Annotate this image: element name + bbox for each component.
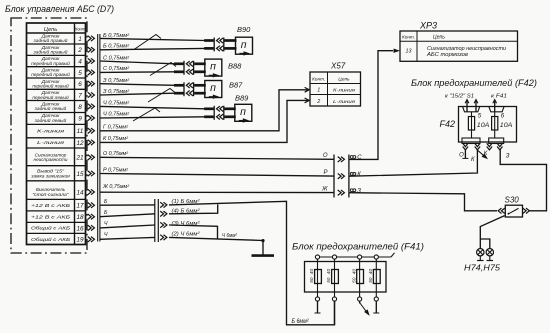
twisted pair mark B89 <box>133 108 160 121</box>
svg-text:50: 50 <box>326 277 332 283</box>
svg-text:Р: Р <box>323 170 327 176</box>
wire З 0,75мм2 pin 7 <box>100 93 175 95</box>
svg-text:С 0,75мм²: С 0,75мм² <box>103 55 129 61</box>
wire Б pin 17 +12V <box>100 204 155 206</box>
battery wires connector bars <box>154 199 156 242</box>
connector bars to sensor В87 <box>183 82 185 96</box>
wire Ч 0,75мм2 pin 8 <box>100 106 205 108</box>
F42 feed arrows <box>466 100 468 112</box>
svg-text:К: К <box>357 172 361 178</box>
svg-text:Ж: Ж <box>321 187 328 193</box>
svg-text:ХР3: ХР3 <box>419 21 437 31</box>
wire from S30 to warning lamps <box>480 216 504 249</box>
pin chevron <box>88 70 95 75</box>
svg-text:Ж 0,75мм²: Ж 0,75мм² <box>102 184 129 190</box>
wire С 0,75мм2 pin 4 <box>100 61 175 64</box>
svg-text:+12 В с АКБ: +12 В с АКБ <box>31 215 71 221</box>
svg-text:19: 19 <box>76 237 84 244</box>
wire Ж 0,75мм2 pin 14 stop-lamp switch <box>100 191 334 193</box>
pin chevron <box>88 214 95 219</box>
intermediate connector bars <box>333 155 335 198</box>
svg-text:Б 0,75мм²: Б 0,75мм² <box>103 43 129 49</box>
svg-text:В87: В87 <box>229 81 243 90</box>
pin chevron <box>88 128 95 133</box>
svg-text:к F41: к F41 <box>491 94 507 100</box>
F42 fuse 6 10А <box>494 112 496 139</box>
svg-text:С 0,75мм²: С 0,75мм² <box>103 66 129 72</box>
svg-text:Блок управления АБС (D7): Блок управления АБС (D7) <box>5 4 114 15</box>
svg-text:З: З <box>506 154 510 160</box>
pin chevron <box>88 155 95 160</box>
svg-text:АБС тормозов: АБС тормозов <box>426 52 469 58</box>
svg-text:З 0,75мм²: З 0,75мм² <box>103 89 129 95</box>
wire stubs into sensor В90 <box>224 39 236 42</box>
wire К 0,75мм2 L-line to X57 pin 2 <box>100 100 309 142</box>
svg-text:Б 6мм²: Б 6мм² <box>292 319 310 325</box>
twisted pair mark B87 <box>148 89 175 103</box>
pin chevron <box>88 92 95 97</box>
svg-text:17: 17 <box>76 203 84 210</box>
connector bars to sensor В88 <box>183 61 185 75</box>
wire Г 0,75мм2 K-line to X57 pin 1 <box>100 90 309 131</box>
svg-text:6: 6 <box>78 81 82 88</box>
svg-text:передний левый: передний левый <box>32 84 69 89</box>
svg-text:13: 13 <box>406 49 412 55</box>
connector table of ABS unit D7 <box>27 23 86 245</box>
svg-text:16: 16 <box>76 225 84 232</box>
svg-text:40: 40 <box>326 269 332 275</box>
svg-text:передний правый: передний правый <box>31 61 70 66</box>
pin chevron <box>88 36 95 41</box>
splice symbol and wire К to fuse F42 <box>350 173 353 176</box>
F41 fuse 4 lower stub <box>375 301 377 313</box>
svg-text:1: 1 <box>78 36 82 43</box>
svg-text:Общий с АКБ: Общий с АКБ <box>31 225 71 232</box>
svg-text:Конт.: Конт. <box>312 77 325 82</box>
svg-text:10А: 10А <box>477 122 490 129</box>
pin chevron <box>88 104 95 109</box>
svg-text:О 0,75мм²: О 0,75мм² <box>103 151 128 157</box>
svg-text:Ч: Ч <box>104 221 108 227</box>
svg-text:11: 11 <box>77 128 84 135</box>
svg-text:неисправности: неисправности <box>34 157 69 162</box>
svg-text:передний левый: передний левый <box>32 95 69 100</box>
splice symbol and wire С to XP3 <box>350 156 353 159</box>
ground junction node <box>261 239 264 242</box>
svg-text:4: 4 <box>78 58 82 65</box>
svg-text:Цепь: Цепь <box>433 35 445 41</box>
svg-text:В90: В90 <box>237 25 251 34</box>
wire Б 0,75мм2 pin 2 <box>100 48 205 49</box>
twisted pair mark B90 <box>134 35 161 50</box>
svg-text:2: 2 <box>316 99 320 105</box>
svg-text:L-линия: L-линия <box>333 99 356 105</box>
thick harness segments before connector of В87 <box>174 84 184 87</box>
svg-text:К 0,75мм²: К 0,75мм² <box>103 136 128 142</box>
svg-text:Х57: Х57 <box>330 62 346 71</box>
svg-text:Ч 6мм²: Ч 6мм² <box>222 233 237 239</box>
lamp H74 <box>477 249 484 256</box>
svg-text:F42: F42 <box>440 119 456 129</box>
pin chevron <box>88 171 95 176</box>
pin chevron <box>88 47 95 52</box>
svg-text:12: 12 <box>76 140 84 147</box>
thick harness segments before connector of В90 <box>204 39 214 42</box>
wire Р 0,75мм2 pin 15 ignition <box>100 174 334 177</box>
svg-text:З 0,75мм²: З 0,75мм² <box>103 78 129 84</box>
F42 output chevrons <box>463 143 468 150</box>
F41 supply bus <box>316 256 391 258</box>
connector bars to sensor В89 <box>213 106 215 120</box>
svg-text:5: 5 <box>478 112 482 119</box>
svg-text:Цепь: Цепь <box>44 27 57 33</box>
twisted pair mark B88 <box>150 63 176 76</box>
svg-text:+12 В с АКБ: +12 В с АКБ <box>31 203 71 209</box>
F41 fuse 2 lower stub (joins Б 6мм2 wire) <box>334 301 336 325</box>
svg-text:Конт.: Конт. <box>402 34 415 39</box>
F41 fuse 3 element <box>359 259 361 297</box>
wire stubs into sensor В88 <box>194 62 206 65</box>
F41 fuse 1 lower stub <box>317 301 319 313</box>
F41 fuse 3 output arrow <box>359 301 361 303</box>
connector bars to sensor В90 <box>213 38 215 52</box>
svg-text:21: 21 <box>75 155 84 162</box>
svg-text:к "15/2" S1: к "15/2" S1 <box>445 94 474 100</box>
svg-text:задний правый: задний правый <box>32 50 68 55</box>
wire stubs into sensor В89 <box>224 107 235 110</box>
svg-text:О: О <box>459 153 464 159</box>
svg-text:Конт: Конт <box>75 27 85 32</box>
svg-text:К: К <box>471 157 475 163</box>
svg-text:п: п <box>241 39 247 51</box>
wire С 0,75мм2 pin 5 <box>100 71 175 74</box>
svg-text:Блок предохранителей (F42): Блок предохранителей (F42) <box>411 78 537 88</box>
svg-text:задний левый: задний левый <box>34 118 67 123</box>
svg-text:передний правый: передний правый <box>31 72 70 77</box>
speed sensor В89 <box>235 104 252 121</box>
svg-text:(2) Ч 6мм²: (2) Ч 6мм² <box>172 232 200 238</box>
F42 top connector housings <box>463 107 480 112</box>
svg-text:S30: S30 <box>505 195 520 204</box>
dashed enclosure of ABS control unit D7 <box>11 18 87 253</box>
svg-text:9: 9 <box>78 115 82 122</box>
lamp H75 <box>486 249 493 256</box>
F41 fuse 3 terminal circles <box>358 255 362 259</box>
svg-text:п: п <box>210 61 216 73</box>
svg-text:14: 14 <box>76 189 84 196</box>
F42 bottom connector housings <box>462 138 480 144</box>
svg-text:К-линия: К-линия <box>37 129 65 135</box>
svg-text:К-линия: К-линия <box>333 88 356 94</box>
pin chevron <box>88 203 95 208</box>
wire Ч pin 16 ground <box>100 225 155 228</box>
svg-text:10А: 10А <box>500 122 513 129</box>
thick harness segments before connector of В88 <box>174 62 184 65</box>
svg-text:Блок предохранителей (F41): Блок предохранителей (F41) <box>292 242 424 252</box>
F41 fuse 4 element <box>375 259 377 297</box>
harness connector bars of D7 <box>97 34 99 242</box>
svg-text:замка зажигания: замка зажигания <box>30 173 70 178</box>
F41 fuse 1 element <box>317 259 319 297</box>
svg-text:О: О <box>323 153 328 159</box>
F41 fuse 2 element <box>334 259 336 297</box>
pin chevron <box>88 58 95 63</box>
F41 fuse 1 terminal circles <box>315 255 319 259</box>
wire З 0,75мм2 pin 6 <box>100 84 175 86</box>
svg-text:задний правый: задний правый <box>32 38 68 43</box>
pin chevron <box>88 225 95 230</box>
wire Б 0,75мм2 pin 1 <box>100 38 205 40</box>
svg-text:Г 0,75мм²: Г 0,75мм² <box>103 125 128 131</box>
svg-text:50: 50 <box>309 277 315 283</box>
svg-text:2: 2 <box>77 47 82 54</box>
svg-text:задний левый: задний левый <box>34 106 67 111</box>
svg-text:В89: В89 <box>235 94 249 103</box>
wire Ч 0,75мм2 pin 9 <box>100 117 205 118</box>
speed sensor В88 <box>205 59 222 76</box>
svg-text:15: 15 <box>76 171 84 178</box>
ground symbol <box>262 241 264 255</box>
svg-text:Ч 0,75мм²: Ч 0,75мм² <box>103 112 129 118</box>
svg-text:Ч 0,75мм²: Ч 0,75мм² <box>103 101 129 107</box>
svg-text:1: 1 <box>317 88 320 94</box>
svg-text:50: 50 <box>368 277 374 283</box>
wire Б pin 18 +12V <box>100 214 155 217</box>
svg-text:Б 0,75мм²: Б 0,75мм² <box>103 33 129 39</box>
svg-text:"стоп-сигнала": "стоп-сигнала" <box>32 192 69 197</box>
svg-text:40: 40 <box>368 269 374 275</box>
svg-text:п: п <box>210 82 216 94</box>
svg-text:8: 8 <box>78 104 82 111</box>
svg-text:50: 50 <box>351 277 357 283</box>
F42 box <box>459 107 517 143</box>
svg-text:Ч: Ч <box>104 232 108 238</box>
svg-text:С: С <box>357 155 362 161</box>
svg-text:Цепь: Цепь <box>338 77 350 83</box>
svg-text:Н74,Н75: Н74,Н75 <box>464 263 500 273</box>
pin chevron <box>88 115 95 120</box>
speed sensor В90 <box>236 37 253 54</box>
F41 fuse 4 terminal circles <box>374 255 378 259</box>
svg-text:6: 6 <box>501 112 505 119</box>
pin chevron <box>88 189 95 194</box>
svg-text:18: 18 <box>76 214 84 221</box>
wire Ч pin 19 ground <box>100 237 155 239</box>
pin chevron <box>88 237 95 242</box>
svg-text:7: 7 <box>78 92 82 99</box>
svg-text:Общий с АКБ: Общий с АКБ <box>31 236 71 243</box>
F42 fuse 5 10А <box>471 112 473 139</box>
svg-text:40: 40 <box>351 269 357 275</box>
svg-text:К: К <box>484 151 488 157</box>
F42 diagonal arrow mark <box>478 151 487 158</box>
splice symbol and wire З to switch S30 <box>350 189 353 192</box>
svg-text:Р 0,75мм²: Р 0,75мм² <box>103 167 128 173</box>
svg-text:L-линия: L-линия <box>37 140 65 146</box>
svg-text:В88: В88 <box>228 62 242 71</box>
pin chevron <box>88 140 95 145</box>
svg-text:5: 5 <box>78 70 82 77</box>
svg-text:Сигнализатор неисправности: Сигнализатор неисправности <box>427 46 506 52</box>
svg-text:п: п <box>240 106 246 118</box>
F42 output О stub <box>464 150 466 159</box>
wire stubs into sensor В87 <box>194 84 206 87</box>
svg-text:40: 40 <box>309 269 315 275</box>
F41 fuse 2 terminal circles <box>332 255 336 259</box>
F41 box <box>305 262 387 293</box>
pin chevron <box>88 81 95 86</box>
thick harness segments before connector of В89 <box>204 107 214 110</box>
wire О 0,75мм2 pin 21 (MIL) <box>100 157 334 159</box>
speed sensor В87 <box>205 81 222 98</box>
